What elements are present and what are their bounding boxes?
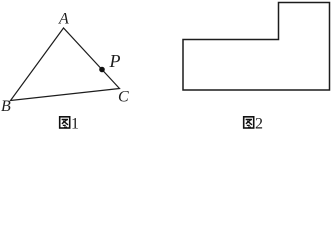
caption 图2 : hand-drawn 图 glyph bbox=[244, 117, 254, 128]
svg-text:A: A bbox=[58, 11, 69, 28]
triangle ABC bbox=[11, 28, 120, 101]
caption 图1 : hand-drawn 图 glyph bbox=[60, 117, 70, 128]
point P dot bbox=[99, 67, 105, 73]
svg-text:B: B bbox=[1, 98, 11, 115]
step polygon figure 2 bbox=[183, 3, 330, 91]
svg-text:1: 1 bbox=[71, 115, 79, 132]
svg-text:C: C bbox=[118, 89, 129, 106]
svg-text:P: P bbox=[109, 51, 121, 71]
svg-text:2: 2 bbox=[255, 115, 263, 132]
